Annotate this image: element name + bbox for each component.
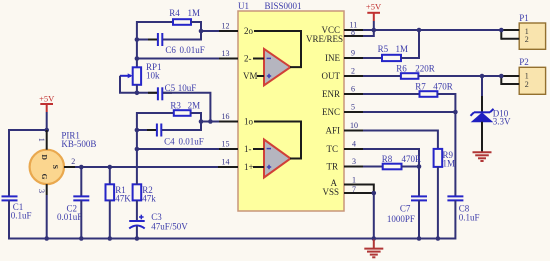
P1 pin 1 stub (501, 29, 519, 31)
capacitor C4 (157, 124, 161, 137)
wire R3 row right (191, 112, 202, 114)
wire C7 to rail (418, 200, 420, 239)
svg-text:10: 10 (350, 121, 358, 130)
svg-text:2o: 2o (244, 26, 254, 36)
svg-text:1: 1 (37, 138, 46, 142)
power +5V left (39, 94, 55, 113)
svg-text:470R: 470R (433, 82, 453, 92)
svg-text:2: 2 (351, 67, 355, 76)
P1 pin 2 stub (501, 38, 519, 40)
svg-text:10uF: 10uF (178, 83, 197, 93)
capacitor C6 (158, 33, 162, 46)
svg-text:C3: C3 (151, 212, 162, 222)
svg-text:8: 8 (351, 28, 355, 37)
wire RP1 bottom lead (136, 85, 138, 94)
wire C5 row left (137, 92, 157, 94)
svg-text:VM: VM (243, 71, 258, 81)
junction at +5V/PIR/C1 node (44, 128, 49, 133)
junction at P1 pin1 (499, 28, 504, 33)
connector P1 (519, 23, 545, 49)
op-amp U1B output wire to 1o (254, 122, 301, 159)
pin 7 stub (344, 192, 364, 194)
resistor R4 (173, 19, 191, 25)
wire 1- net vertical (136, 112, 138, 184)
svg-text:1: 1 (352, 176, 356, 185)
svg-text:0.01uF: 0.01uF (57, 212, 82, 222)
wire R6 to P2 (418, 75, 501, 77)
svg-text:1o: 1o (244, 117, 254, 127)
junction R1 at rail (108, 236, 113, 241)
pin 4 stub (344, 148, 364, 150)
svg-text:R6: R6 (396, 64, 407, 74)
capacitor C2 (73, 196, 89, 200)
svg-text:6: 6 (351, 85, 355, 94)
svg-text:1M: 1M (188, 8, 201, 18)
svg-text:C5: C5 (165, 83, 176, 93)
svg-text:0.1uF: 0.1uF (11, 211, 32, 221)
capacitor C1 (2, 196, 18, 200)
ground symbol main (364, 239, 383, 258)
op-amp U1A input wire (VM) (257, 75, 264, 77)
svg-text:R4: R4 (169, 8, 180, 18)
svg-text:P1: P1 (519, 13, 529, 23)
wire R4 row left (136, 21, 173, 23)
svg-text:4: 4 (352, 140, 356, 149)
pin 3 stub (344, 166, 364, 168)
P1 pins tie vertical (500, 29, 502, 40)
C5 black leads (148, 92, 157, 94)
wire R3 row left (136, 112, 174, 114)
junction +5V at VCC row (372, 28, 377, 33)
svg-text:2M: 2M (188, 101, 201, 111)
svg-text:3: 3 (37, 189, 46, 193)
junction VSS at rail (372, 236, 377, 241)
junction RP1 bottom / C5 (135, 91, 140, 96)
pin 6 stub (344, 93, 364, 95)
P2 pins tie vertical (500, 75, 502, 85)
ground rail (9, 238, 455, 240)
svg-text:BISS0001: BISS0001 (265, 1, 302, 11)
junction R9 at rail (436, 236, 441, 241)
op-amp U1B input wire (1+) (253, 166, 264, 168)
wire C4 row right (162, 129, 201, 131)
resistor R8 (383, 164, 402, 170)
wire R8 right to TC vertical (402, 166, 420, 168)
svg-text:5: 5 (351, 103, 355, 112)
resistor R9 (434, 149, 443, 167)
op-amp U1A (264, 49, 291, 85)
svg-text:+5V: +5V (366, 2, 382, 12)
wire PIR G to ground rail (46, 195, 48, 240)
svg-text:470R: 470R (402, 154, 422, 164)
svg-text:1000PF: 1000PF (387, 214, 415, 224)
junction C5 at pin16 row (208, 119, 213, 124)
wire R7 right down to ENC row (437, 94, 455, 112)
svg-text:47uF/50V: 47uF/50V (151, 222, 188, 232)
wire +5V right down (373, 21, 375, 31)
P2 pin 1 stub (501, 75, 519, 77)
resistor R2 (133, 184, 142, 200)
pin 11 stub (344, 29, 364, 31)
wire VCC row to P1 (363, 29, 501, 31)
pin 1 stub (344, 184, 364, 186)
wire R9 to rail (437, 167, 439, 240)
wire C1 to ground rail (8, 200, 10, 239)
wire pin 15 (137, 148, 219, 150)
junction C4 left (135, 128, 140, 133)
capacitor C3 (polarized) (129, 215, 145, 229)
wire pin 6 (ENR) to R7 (363, 93, 420, 95)
PIR pin 1 stub (D) (46, 130, 48, 150)
svg-text:1M: 1M (396, 44, 409, 54)
junction C2 top (79, 165, 84, 170)
connector P2 (519, 67, 545, 94)
pin 14 stub (218, 166, 238, 168)
capacitor C5 (158, 87, 162, 100)
svg-text:C4: C4 (164, 137, 175, 147)
junction R1 top (108, 165, 113, 170)
junction C2 at rail (79, 236, 84, 241)
svg-text:0.01uF: 0.01uF (179, 137, 204, 147)
svg-text:C6: C6 (165, 45, 176, 55)
wire C1 branch vertical upper (8, 129, 10, 196)
wire pin 16 (201, 121, 219, 123)
svg-text:C7: C7 (400, 204, 411, 214)
resistor R3 (174, 110, 191, 116)
svg-text:VRE/RES: VRE/RES (306, 34, 343, 44)
wire +5V left down to node (46, 112, 48, 131)
svg-text:TR: TR (326, 162, 338, 172)
svg-text:D: D (40, 154, 49, 160)
wire right feedback vertical to pin12 (200, 21, 202, 41)
svg-text:2: 2 (525, 80, 529, 89)
svg-text:16: 16 (222, 112, 230, 121)
svg-text:0.01uF: 0.01uF (180, 45, 205, 55)
wire C5 row right + drop to 1o (163, 93, 210, 122)
svg-text:2-: 2- (244, 54, 252, 64)
capacitor C8 (447, 196, 463, 200)
junction pin16 row left (199, 119, 204, 124)
svg-text:ENR: ENR (322, 89, 340, 99)
wire left feedback vertical (2- net) (136, 21, 138, 67)
diode D10 (zener) (471, 109, 494, 122)
svg-text:3: 3 (352, 157, 356, 166)
svg-text:P2: P2 (519, 57, 529, 67)
junction pin12 row (199, 29, 204, 34)
svg-text:12: 12 (222, 22, 230, 31)
wire C2 to ground rail (80, 200, 82, 239)
chip U1 body (238, 11, 344, 211)
P2 pin 2 stub (501, 83, 519, 85)
wire pin 7 (VSS) (344, 192, 374, 194)
op-amp U1B (264, 140, 291, 178)
wire C2 vertical upper (80, 167, 82, 196)
wire source row (S to pin 14) (75, 166, 218, 168)
PIR pin 2 stub (S) (64, 166, 75, 168)
junction PIR G at rail (44, 236, 49, 241)
wire pin 13 (137, 58, 219, 60)
power +5V right (366, 2, 382, 22)
junction R8 right at TC vertical (417, 164, 422, 169)
svg-text:47K: 47K (115, 194, 131, 204)
wire ENC vertical to C8 (454, 112, 456, 196)
PIR pin 3 stub (G) (46, 184, 48, 195)
resistor R1 (106, 167, 115, 240)
svg-text:1M: 1M (443, 159, 456, 169)
svg-text:2: 2 (525, 35, 529, 44)
op-amp U1A input wire (2-) (253, 58, 264, 60)
op-amp U1B input wire (1-) (253, 148, 264, 150)
wire pin 8 up to VCC row (363, 30, 374, 36)
svg-text:1+: 1+ (244, 162, 254, 172)
wire C4 row left (137, 129, 156, 131)
wire R4 row right (191, 21, 202, 23)
wire C6 row right (163, 39, 201, 41)
C4 black leads (147, 129, 156, 131)
svg-text:R3: R3 (170, 101, 181, 111)
C6 black leads (148, 39, 157, 41)
resistor R7 (420, 91, 438, 97)
svg-text:G: G (40, 174, 49, 180)
wire pin 2 (OUT) to R6 (363, 75, 401, 77)
svg-text:U1: U1 (238, 1, 249, 11)
svg-text:ENC: ENC (322, 107, 340, 117)
svg-text:OUT: OUT (322, 71, 341, 81)
resistor R5 (382, 55, 401, 61)
svg-text:0.1uF: 0.1uF (459, 213, 480, 223)
wire C6 row left (136, 39, 157, 41)
wire pin 4 (TC) down (363, 149, 419, 196)
wire R3/C4 right vertical (200, 112, 202, 131)
junction pin15 row (135, 147, 140, 152)
svg-text:S: S (51, 165, 60, 169)
capacitor C7 (411, 196, 427, 200)
junction R5 vertical at VCC row (417, 28, 422, 33)
ground symbol D10 (473, 152, 492, 161)
wire pin 5 (ENC) (363, 111, 455, 113)
pin 8 stub (344, 35, 364, 37)
svg-text:VSS: VSS (322, 187, 339, 197)
svg-text:3.3V: 3.3V (493, 117, 511, 127)
wire VSS vertical to rail (373, 193, 375, 240)
pin 2 stub (344, 75, 364, 77)
wire pin 12 (201, 30, 219, 32)
potentiometer RP1 (120, 67, 141, 85)
wire C3 to ground rail (136, 226, 138, 240)
wire pin 9 to R5 (363, 57, 382, 59)
svg-text:9: 9 (351, 49, 355, 58)
wire C8 to rail (454, 200, 456, 239)
pin 12 stub (218, 30, 238, 32)
svg-text:R7: R7 (415, 82, 426, 92)
wire pin 10 (AFI) to R9 (363, 131, 438, 149)
wire pin 1 (A) to ground drop (344, 185, 374, 194)
svg-text:INE: INE (325, 53, 340, 63)
junction pin13 row (135, 56, 140, 61)
wire node to C1 branch (9, 129, 48, 131)
junction C7 at rail (417, 236, 422, 241)
pin 5 stub (344, 111, 364, 113)
svg-text:R8: R8 (382, 154, 393, 164)
junction D10 at OUT row (480, 74, 485, 79)
junction ENC / R7 / C8 (453, 110, 458, 115)
wire R5 right up to VCC row (401, 30, 419, 58)
wire pin 3 (TR) to R8 (363, 166, 383, 168)
pin 13 stub (218, 58, 238, 60)
pin 15 stub (218, 148, 238, 150)
svg-text:2: 2 (71, 157, 75, 166)
svg-text:14: 14 (222, 158, 230, 167)
svg-text:1-: 1- (244, 144, 252, 154)
junction C6 left (135, 37, 140, 42)
svg-text:TC: TC (326, 144, 338, 154)
svg-text:KB-500B: KB-500B (61, 139, 96, 149)
wire D10 upper stub (481, 96, 483, 113)
op-amp U1A output wire to 2o (254, 31, 301, 67)
wire D10 from OUT row (481, 76, 483, 96)
svg-text:AFI: AFI (325, 126, 340, 136)
svg-text:13: 13 (222, 49, 230, 58)
svg-text:R5: R5 (378, 44, 389, 54)
pin 10 stub (344, 130, 364, 132)
svg-text:+5V: +5V (39, 94, 55, 104)
svg-text:220R: 220R (415, 64, 435, 74)
svg-text:47k: 47k (142, 194, 156, 204)
wire D10 to its ground (481, 122, 483, 152)
PIR sensor PIR1 (30, 150, 64, 184)
svg-text:15: 15 (222, 140, 230, 149)
svg-text:10k: 10k (146, 71, 160, 81)
junction A/VSS (372, 191, 377, 196)
wire R2 bottom to C3 (136, 200, 138, 221)
wire RP1 wiper return (120, 76, 137, 93)
junction at P2 pin1 (499, 74, 504, 79)
pin 16 stub (218, 121, 238, 123)
resistor R6 (401, 73, 419, 79)
junction C3 at rail (135, 236, 140, 241)
pin 9 stub (344, 57, 364, 59)
